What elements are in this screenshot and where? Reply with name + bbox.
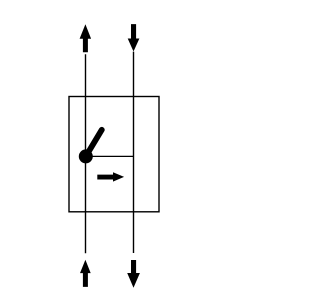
flow arrow down bottom-right bbox=[127, 260, 140, 288]
control lever bbox=[86, 130, 102, 157]
pivot dot bbox=[79, 149, 93, 163]
wire horizontal link to right line bbox=[86, 155, 134, 157]
wire left vertical line bbox=[85, 54, 87, 253]
flow arrow down top-right bbox=[128, 24, 140, 51]
flow arrow up bottom-left bbox=[80, 260, 91, 287]
actuation arrow right bbox=[97, 172, 124, 181]
component body box bbox=[69, 97, 159, 212]
flow arrow up top-left bbox=[80, 24, 92, 52]
wire right vertical line bbox=[133, 52, 135, 253]
